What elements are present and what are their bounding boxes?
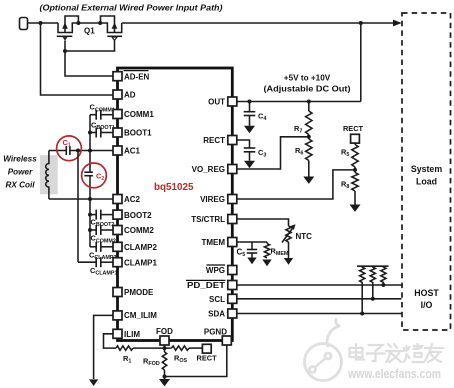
pin AD [113,90,136,100]
svg-text:AD-EN: AD-EN [124,72,150,81]
resistor Ros [172,346,190,364]
node SCL pullup [371,297,375,301]
svg-text:CM_ILIM: CM_ILIM [124,311,157,320]
svg-text:RECT: RECT [197,353,218,362]
label host io [414,288,439,310]
svg-text:bq51025: bq51025 [154,181,194,193]
wire PGND down [165,345,227,377]
wire OUT riser [360,23,362,102]
node input junction [39,21,43,25]
svg-text:NTC: NTC [296,232,313,241]
pin CLAMP2 [113,242,157,252]
wire divider to VO_REG [237,137,309,169]
node comm2 tap [88,228,92,232]
wire AC1 net [49,150,66,152]
node R5 R8 junction [353,168,357,172]
arrow into system load [393,20,402,27]
resistor R1 [116,346,133,365]
resistor pull-up PD_DET [381,266,386,285]
pin SCL [209,294,237,304]
node R7 tap [307,100,311,104]
svg-text:I/O: I/O [421,300,433,310]
ground NTC [284,258,293,265]
pin RECT [203,136,237,146]
wire connector to Q1 [28,22,59,24]
ground C3 [244,161,255,168]
capacitor Ccomm1 [90,103,115,120]
svg-text:VO_REG: VO_REG [192,165,225,174]
pin PD_DET [186,280,237,290]
svg-text:SDA: SDA [208,310,225,319]
svg-text:FOD: FOD [156,327,173,336]
svg-text:WPG: WPG [206,266,225,275]
svg-text:Q1: Q1 [84,27,95,36]
wire CM_ILIM to ground [94,315,113,379]
watermark chinese text shao [404,344,424,362]
thermistor NTC [282,224,312,258]
circle highlight C2 [82,163,107,188]
circle highlight C1 [57,136,82,161]
wire TS/CTRL [237,219,289,226]
watermark chinese text you [425,344,443,362]
svg-text:BOOT1: BOOT1 [124,129,152,138]
svg-text:TMEM: TMEM [201,238,225,247]
wire Q1 mid segment [78,22,100,24]
wire top rail to system load [122,22,394,24]
capacitor C1 [66,146,70,155]
svg-text:BOOT2: BOOT2 [124,211,152,220]
svg-text:System: System [411,164,442,174]
IC bq51025 body [118,68,233,341]
wireless power RX coil label [3,155,37,190]
svg-text:COMM1: COMM1 [124,110,154,119]
svg-text:Power: Power [8,168,33,177]
node FOD [163,346,167,350]
pin AC1 [113,146,141,156]
pin TMEM [201,238,236,248]
svg-text:AC2: AC2 [124,195,141,204]
wire VIREG to divider [237,170,355,199]
ground CM_ILIM [89,379,98,386]
wire ILIM loop [104,334,117,348]
capacitor Cclamp1 [78,257,118,276]
wire AC2 net [49,198,113,200]
pin FOD [156,327,173,345]
node C1 out [76,149,80,153]
svg-text:PGND: PGND [204,328,227,337]
pin PMODE [113,288,154,298]
pin BOOT1 [113,128,152,138]
ground R6 [303,177,314,184]
pin PGND [204,328,231,346]
svg-text:Load: Load [416,177,437,187]
node Q1 mid [76,21,80,25]
wire AD drop [41,23,114,95]
svg-text:HOST: HOST [414,288,439,298]
pin AC2 [113,195,141,205]
host-system dashed box [402,13,451,330]
ground Rmem [262,260,271,267]
svg-text:ILIM: ILIM [124,330,140,339]
ground C4 [244,126,255,133]
svg-text:AC1: AC1 [124,147,141,156]
node C4 tap [248,100,252,104]
svg-text:OUT: OUT [208,98,225,107]
transistor Q1 right FET [100,16,122,41]
pin VIREG [200,195,237,205]
wire SDA line [237,313,402,315]
pull-up rail [357,265,389,267]
capacitor C4 [244,102,267,126]
capacitor C3 [244,148,267,161]
coil shading box [40,155,58,194]
node gate junction [63,49,67,53]
node SDA pullup [360,312,364,316]
pin VO_REG [192,165,237,175]
wire PD_DET line [237,284,402,286]
svg-text:www.elecfans.com: www.elecfans.com [347,367,441,381]
wire comm-boot vertical [89,115,91,173]
svg-text:+5V to +10V: +5V to +10V [284,74,331,83]
node AC1 tap [88,149,92,153]
capacitor Cboot2 [90,210,114,228]
svg-text:CLAMP2: CLAMP2 [124,243,157,252]
svg-text:Wireless: Wireless [3,155,37,164]
wire FOD stub [164,345,166,348]
svg-text:PMODE: PMODE [124,288,154,297]
wire R1 to FOD node [133,347,172,349]
resistor pull-up SDA [360,266,365,313]
node AC2 tap [88,197,92,201]
pin AD-EN [113,71,150,82]
pin TS/CTRL [191,215,237,225]
capacitor Ccomm2 [90,225,116,244]
capacitor Cclamp2 [89,242,117,261]
wire TMEM [237,241,267,243]
capacitor C5 [237,242,258,258]
ground C5 [247,258,256,265]
node R7 R6 junction [308,135,310,140]
node Q1 mid2 [98,21,102,25]
svg-text:CLAMP1: CLAMP1 [124,258,157,267]
capacitor Cboot1 [90,121,115,138]
pin SDA [208,309,237,319]
node boot2 tap [88,213,92,217]
resistor R5 [341,143,358,172]
wire clamp1 vertical [77,151,79,263]
pin CM_ILIM [113,311,157,320]
wire OUT rail [237,101,361,103]
capacitor C2 [84,172,93,176]
terminal RECT bottom [202,344,211,353]
resistor R6 [295,139,312,177]
label system load [411,164,442,187]
node PGND ground junction [163,375,167,379]
pin COMM1 [113,110,154,120]
svg-text:RECT: RECT [343,124,364,133]
connector J1 [20,18,28,30]
ground R8 [350,205,361,212]
pin BOOT2 [113,210,152,220]
resistor R8 [341,173,358,205]
svg-text:RX Coil: RX Coil [5,181,35,190]
node PD_DET pullup [381,283,385,287]
watermark elecfans logo [305,320,342,381]
svg-text:PD_DET: PD_DET [187,281,225,290]
node boot1 tap [88,131,92,135]
svg-text:(Optional External Wired Power: (Optional External Wired Power Input Pat… [40,3,223,12]
wire gate link [65,41,115,52]
wire RECT to C3 [237,140,250,148]
wire Ros to RECT terminal [189,347,202,349]
wire SCL line [237,298,402,300]
svg-text:TS/CTRL: TS/CTRL [191,215,225,224]
svg-text:(Adjustable DC Out): (Adjustable DC Out) [264,85,351,94]
watermark chinese text zi [367,345,385,361]
pin ILIM [113,329,140,339]
transistor Q1 left FET [57,16,113,76]
resistor R7 [294,102,312,135]
svg-text:SCL: SCL [209,295,225,304]
pin COMM2 [113,226,154,236]
resistor Rmem [264,242,289,258]
watermark chinese text fa [386,344,404,362]
watermark chinese text dian [350,344,365,360]
pin CLAMP1 [113,258,157,268]
svg-text:VIREG: VIREG [200,195,225,204]
svg-text:RECT: RECT [203,136,225,145]
ground FOD [159,379,170,386]
pin WPG [206,265,237,275]
node rail junction [359,21,363,25]
svg-text:AD: AD [124,91,136,100]
pin OUT [208,97,237,107]
resistor pull-up SCL [370,266,375,299]
svg-text:COMM2: COMM2 [124,226,154,235]
resistor Rfod [143,348,167,379]
inductor RX coil [46,151,49,200]
